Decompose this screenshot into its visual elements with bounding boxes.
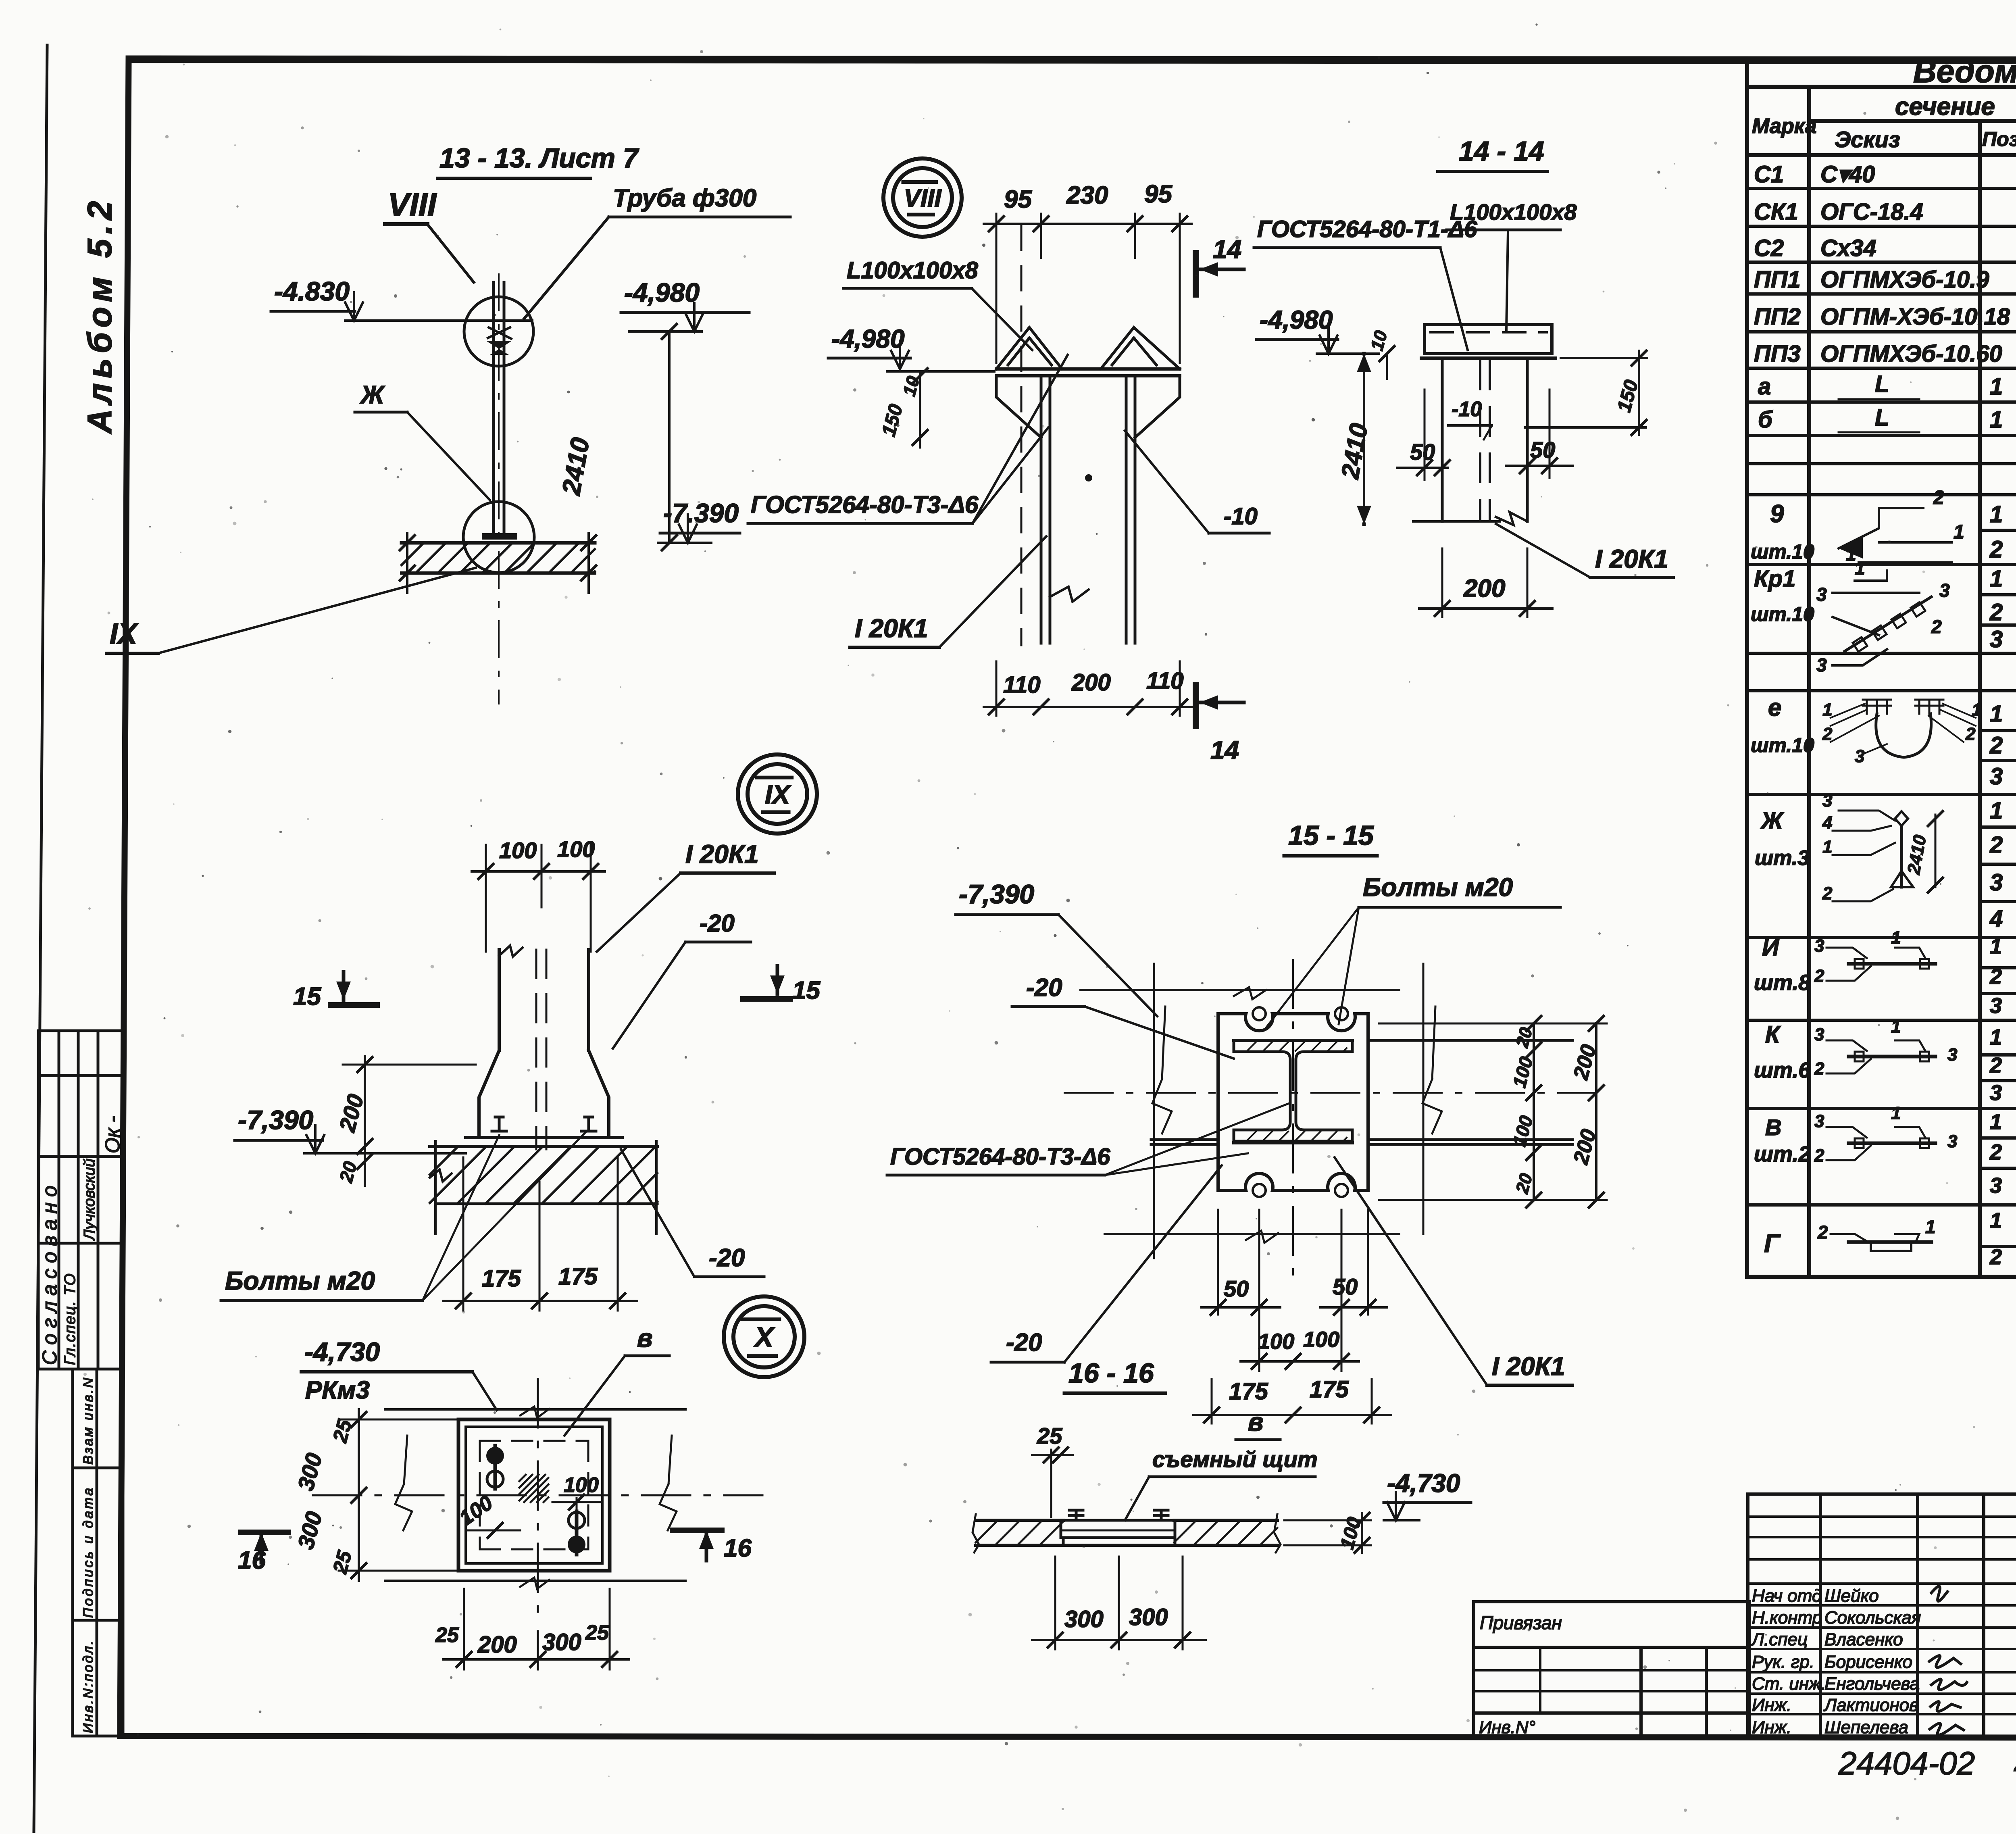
svg-text:3: 3 (1990, 763, 2003, 790)
svg-text:IX: IX (765, 779, 791, 809)
svg-text:В: В (1765, 1115, 1781, 1140)
svg-text:Инв.N:подл.: Инв.N:подл. (81, 1639, 96, 1733)
svg-text:Болты м20: Болты м20 (225, 1266, 375, 1295)
view 15-15 weld label GOST5264-80-T3-D6 (887, 1103, 1290, 1175)
table row C1 (1754, 161, 2016, 188)
left stamp table: inventory block (73, 1369, 123, 1736)
svg-text:ОГПМХЭб-10.9: ОГПМХЭб-10.9 (1820, 267, 1989, 293)
svg-text:в: в (637, 1323, 653, 1353)
svg-text:Подпись и дата: Подпись и дата (81, 1486, 96, 1618)
svg-text:2: 2 (1965, 724, 1976, 744)
view IX section mark 15 left (293, 972, 377, 1011)
view 13-13 pipe (494, 274, 504, 704)
svg-text:IX: IX (110, 618, 139, 650)
svg-text:100: 100 (1258, 1330, 1294, 1354)
svg-text:шт.8: шт.8 (1754, 971, 1810, 995)
view 15-15 right dims 20 100 100 20 200 200 (1379, 1016, 1607, 1207)
svg-text:16 - 16: 16 - 16 (1068, 1358, 1154, 1388)
view VIII weld label GOST5264-80-T3-D6 (748, 355, 1068, 523)
svg-text:-4,730: -4,730 (304, 1337, 380, 1367)
svg-text:100: 100 (564, 1473, 599, 1497)
view IX label I 20K1 (597, 840, 774, 952)
svg-text:2: 2 (1817, 1222, 1828, 1243)
svg-text:2: 2 (1814, 1146, 1824, 1165)
svg-text:200: 200 (477, 1632, 517, 1658)
view X bottom dims 25 200 300 25 (435, 1589, 629, 1669)
svg-text:2: 2 (1822, 724, 1833, 744)
privyazan block (1474, 1602, 1749, 1736)
view 15-15 bolts label (1264, 873, 1560, 1030)
svg-text:175: 175 (1310, 1376, 1349, 1403)
svg-text:14 - 14: 14 - 14 (1459, 136, 1544, 167)
svg-text:Сокольская: Сокольская (1824, 1608, 1921, 1628)
view 16-16 elevation -4,730 (1384, 1469, 1471, 1520)
view VIII dim 150 10 left (878, 369, 927, 448)
svg-text:Марка: Марка (1752, 115, 1817, 138)
svg-text:С1: С1 (1754, 161, 1784, 188)
table row PP3 (1754, 341, 2016, 367)
table group Zh (1755, 798, 2016, 934)
svg-text:-4,730: -4,730 (1387, 1469, 1460, 1498)
view 16-16 slab section (973, 1510, 1281, 1553)
svg-text:Сх34: Сх34 (1820, 235, 1876, 261)
view 13-13 bottom detail circle (463, 502, 534, 573)
svg-text:С2: С2 (1754, 235, 1784, 261)
svg-text:Поз: Поз (1982, 128, 2016, 150)
svg-text:-4,980: -4,980 (624, 277, 700, 307)
view 14-14 dims 50 50 (1397, 390, 1572, 480)
view 14-14 dim 150 (1525, 351, 1647, 435)
svg-text:4: 4 (1822, 813, 1832, 833)
view IX elevation -7,390 (235, 1105, 466, 1153)
table row PP2 (1754, 304, 2016, 330)
view IX ground slab (430, 1141, 657, 1234)
view 15-15 label -20 lower (991, 1165, 1222, 1362)
svg-text:шт.6: шт.6 (1754, 1058, 1811, 1082)
view IX column (466, 946, 622, 1149)
table group G sketch (1817, 1216, 1936, 1251)
view VIII top dimensions 95 230 95 (984, 180, 1191, 363)
view 16-16 dim 100 (1284, 1513, 1371, 1553)
svg-text:1: 1 (1891, 1017, 1901, 1036)
table group K sketch (1826, 1040, 1935, 1073)
view VIII section circle symbol (883, 158, 962, 237)
svg-text:Нач отд: Нач отд (1752, 1586, 1822, 1606)
svg-text:3: 3 (1990, 626, 2003, 652)
svg-text:Гл.спец. ТО: Гл.спец. ТО (62, 1273, 79, 1365)
svg-text:3: 3 (1816, 654, 1827, 675)
svg-text:1: 1 (1990, 934, 2002, 959)
svg-text:-20: -20 (709, 1244, 745, 1272)
svg-text:-7,390: -7,390 (959, 879, 1034, 909)
svg-text:200: 200 (1463, 575, 1505, 602)
svg-text:3: 3 (1855, 746, 1864, 766)
view IX label -20 bottom (621, 1149, 764, 1277)
svg-text:3: 3 (1990, 1173, 2002, 1198)
svg-text:3: 3 (1990, 994, 2002, 1018)
view X section circle symbol (724, 1296, 804, 1377)
svg-text:1: 1 (1990, 1110, 2002, 1134)
svg-text:ГОСТ5264-80-Т3-Δ6: ГОСТ5264-80-Т3-Δ6 (890, 1144, 1110, 1170)
svg-text:100: 100 (557, 836, 595, 862)
svg-text:Ст. инж.: Ст. инж. (1752, 1674, 1826, 1694)
svg-text:Инж.: Инж. (1752, 1717, 1791, 1737)
table group Kr1 sketch (1816, 558, 1950, 675)
svg-text:L100x100x8: L100x100x8 (847, 257, 978, 283)
svg-text:1: 1 (1972, 700, 1981, 720)
svg-text:ОГС-18.4: ОГС-18.4 (1820, 199, 1923, 225)
view 14-14 plate (1413, 325, 1556, 525)
svg-text:3: 3 (1947, 1045, 1957, 1065)
svg-text:3: 3 (1990, 1081, 2002, 1105)
svg-text:СК1: СК1 (1754, 199, 1798, 225)
table row a (1758, 371, 2016, 402)
view 16-16 label v and panel (1125, 1407, 1318, 1520)
table group K (1754, 1021, 2016, 1105)
svg-text:95: 95 (1004, 185, 1032, 213)
svg-text:С▾40: С▾40 (1820, 161, 1875, 188)
view 15-15 label -20 upper (1012, 974, 1234, 1059)
view X elevation -4,730 (301, 1337, 497, 1410)
view 15-15 bottom dims 50 50 100 100 175 175 (1193, 1210, 1391, 1423)
view X centerlines (313, 1379, 762, 1622)
svg-text:300: 300 (1129, 1604, 1168, 1630)
table group V sketch (1826, 1127, 1935, 1160)
view 14-14 weld label GOST5264-80-T1-D6 (1254, 216, 1477, 350)
svg-text:б: б (1758, 406, 1773, 433)
svg-text:Кр1: Кр1 (1754, 566, 1795, 592)
svg-text:-7,390: -7,390 (238, 1105, 313, 1135)
svg-text:1: 1 (1855, 558, 1865, 579)
svg-text:13 - 13. Лист 7: 13 - 13. Лист 7 (439, 143, 639, 173)
svg-text:шт.10: шт.10 (1751, 603, 1814, 625)
svg-text:I 20К1: I 20К1 (685, 840, 759, 869)
svg-text:Эскиз: Эскиз (1835, 127, 1900, 152)
view 15-15 label I 20K1 (1335, 1157, 1572, 1385)
view 13-13 top detail circle (464, 297, 533, 366)
svg-text:2: 2 (1989, 1053, 2002, 1077)
svg-text:2: 2 (1931, 616, 1942, 637)
view 15-15 elevation -7,390 (956, 879, 1157, 1016)
svg-text:Привязан: Привязан (1480, 1612, 1562, 1633)
svg-text:шт.2: шт.2 (1754, 1142, 1810, 1166)
view IX dims 200 20 (334, 1057, 476, 1186)
svg-text:1: 1 (1954, 521, 1964, 543)
view X left dims 25 300 300 25 (293, 1409, 460, 1581)
svg-text:4: 4 (1989, 906, 2003, 932)
view IX section circle symbol (738, 754, 817, 834)
svg-text:Ок -: Ок - (101, 1116, 124, 1153)
table row PP1 (1754, 267, 2016, 293)
svg-text:9: 9 (1770, 500, 1784, 528)
svg-text:в: в (1248, 1407, 1264, 1436)
svg-text:Лактионов: Лактионов (1823, 1695, 1918, 1715)
svg-text:24404-02: 24404-02 (1838, 1745, 1975, 1781)
view VIII label I 20K1 (850, 536, 1046, 647)
view VIII angle label L100x100x8 (843, 257, 1032, 350)
svg-text:2: 2 (1989, 965, 2002, 989)
view X bolt symbols (486, 1446, 585, 1555)
svg-text:2: 2 (1989, 1245, 2002, 1269)
svg-text:-7.390: -7.390 (663, 498, 739, 528)
svg-text:I 20К1: I 20К1 (855, 614, 928, 643)
svg-text:3: 3 (1990, 869, 2003, 896)
svg-text:100: 100 (1303, 1328, 1339, 1352)
svg-text:Труба ф300: Труба ф300 (613, 184, 756, 212)
view 13-13 zh label (355, 381, 490, 500)
view 13-13 pipe label (524, 184, 790, 319)
svg-text:3: 3 (1947, 1132, 1957, 1151)
view 14-14 label -10 (1448, 398, 1492, 440)
svg-text:2: 2 (1814, 966, 1824, 986)
svg-text:25: 25 (435, 1624, 459, 1647)
svg-text:2: 2 (1989, 599, 2003, 625)
svg-text:L: L (1875, 404, 1889, 431)
svg-text:К: К (1765, 1021, 1781, 1048)
svg-text:Л.спец: Л.спец (1751, 1630, 1808, 1649)
svg-text:2: 2 (1989, 732, 2003, 759)
svg-text:16: 16 (724, 1534, 752, 1562)
table row b (1758, 404, 2016, 436)
svg-text:сечение: сечение (1895, 93, 1995, 121)
table group 9 (1751, 500, 2016, 565)
svg-text:Шепелева: Шепелева (1824, 1717, 1908, 1737)
svg-text:а: а (1758, 373, 1771, 400)
view X square plan (458, 1419, 610, 1571)
view 14-14 label I 20K1 (1496, 524, 1673, 577)
svg-text:I 20К1: I 20К1 (1595, 544, 1668, 573)
svg-text:1: 1 (1990, 501, 2003, 527)
view 15-15 floor plate lines (1151, 1007, 1572, 1144)
svg-text:1: 1 (1990, 566, 2003, 592)
view VIII bottom dims 110 200 110 (984, 661, 1191, 716)
footer number (1838, 1742, 2016, 1781)
view 13-13 IX label (106, 568, 476, 653)
svg-text:шт.10: шт.10 (1751, 734, 1814, 757)
table group Kr1 (1751, 566, 2016, 655)
view IX label -20 top (613, 910, 751, 1048)
view X crosshatch patch (519, 1475, 548, 1502)
svg-text:1: 1 (1990, 1025, 2002, 1049)
svg-text:-10: -10 (1452, 398, 1482, 421)
svg-text:Инв.N°: Инв.N° (1479, 1717, 1535, 1737)
svg-text:ПП2: ПП2 (1754, 304, 1801, 330)
title block signature rows (1751, 1586, 1967, 1737)
svg-text:шт.10: шт.10 (1751, 540, 1814, 563)
table group V (1754, 1106, 2016, 1198)
svg-text:1: 1 (1990, 701, 2003, 727)
view X break lines (385, 1407, 685, 1589)
view 13-13 label VIII (385, 187, 474, 282)
svg-text:ПП3: ПП3 (1754, 341, 1801, 367)
svg-text:Енгольчева: Енгольчева (1824, 1674, 1920, 1694)
svg-text:Болты м20: Болты м20 (1363, 873, 1513, 902)
svg-text:И: И (1762, 935, 1779, 961)
svg-text:50: 50 (1333, 1274, 1358, 1299)
table row C2 (1754, 235, 2016, 261)
svg-text:27: 27 (2014, 1742, 2016, 1778)
svg-text:2: 2 (1933, 487, 1944, 509)
svg-text:2: 2 (1989, 832, 2003, 858)
svg-text:3: 3 (1822, 791, 1832, 811)
svg-text:Рук. гр.: Рук. гр. (1752, 1652, 1814, 1672)
svg-text:Согласовано: Согласовано (38, 1180, 61, 1365)
view X section mark 16 left (238, 1532, 288, 1574)
view 15-15 title (1284, 820, 1377, 856)
vedomost table title (1913, 52, 2016, 89)
svg-text:3: 3 (1816, 584, 1827, 605)
sheet outer edge left (34, 45, 47, 1832)
table group I sketch (1826, 948, 1935, 981)
svg-text:2: 2 (1989, 1140, 2002, 1164)
svg-text:50: 50 (1224, 1276, 1249, 1301)
table row CK1 (1754, 199, 2016, 225)
svg-text:-20: -20 (1026, 974, 1062, 1002)
view 14-14 dim 10 small (1367, 328, 1394, 379)
view 16-16 dim 25 (1032, 1423, 1073, 1517)
view VIII section mark 14 top (1196, 235, 1244, 294)
left stamp table: soglasovano block (38, 1031, 123, 1369)
view 15-15 base plate with bolt notches (1218, 1007, 1368, 1197)
svg-text:Н.контр: Н.контр (1752, 1608, 1822, 1628)
svg-text:15: 15 (792, 977, 821, 1005)
svg-text:300: 300 (1064, 1606, 1104, 1632)
svg-text:Шейко: Шейко (1824, 1586, 1879, 1606)
view 13-13 elevation -4.830 (271, 276, 532, 321)
svg-text:ОГПМ-ХЭб-10.18: ОГПМ-ХЭб-10.18 (1820, 304, 2010, 330)
view X label v (564, 1323, 669, 1436)
view IX bolts label (221, 1131, 587, 1300)
album label (81, 196, 119, 434)
svg-text:Власенко: Власенко (1824, 1630, 1903, 1649)
svg-text:15 - 15: 15 - 15 (1288, 820, 1374, 851)
svg-text:Альбом 5.2: Альбом 5.2 (81, 196, 119, 434)
svg-text:1: 1 (1891, 928, 1901, 948)
svg-text:VIII: VIII (388, 187, 437, 223)
svg-text:230: 230 (1066, 181, 1108, 209)
svg-text:Ж: Ж (1760, 808, 1784, 834)
svg-text:25: 25 (1037, 1423, 1062, 1448)
table group e (1751, 694, 2016, 790)
view 15-15 centerlines (1064, 960, 1597, 1282)
svg-text:Борисенко: Борисенко (1824, 1652, 1912, 1672)
view 14-14 label L100x100x8 (1447, 199, 1577, 331)
svg-text:-4.830: -4.830 (274, 276, 350, 306)
svg-text:-20: -20 (1006, 1329, 1042, 1357)
view VIII elevation -4,980 (828, 324, 994, 371)
svg-text:-20: -20 (700, 910, 735, 937)
svg-text:110: 110 (1003, 672, 1040, 698)
view 13-13 ground slab (400, 533, 596, 593)
svg-text:3: 3 (1939, 580, 1950, 601)
svg-text:1: 1 (1822, 700, 1832, 720)
svg-text:14: 14 (1210, 736, 1239, 765)
svg-text:шт.3: шт.3 (1755, 846, 1809, 870)
view 13-13 title (437, 143, 639, 178)
svg-text:Взам инв.N: Взам инв.N (81, 1376, 96, 1465)
title block grid (1748, 1494, 2016, 1738)
view 14-14 dim 200 (1419, 548, 1552, 617)
view IX section mark 15 right (743, 966, 821, 1005)
svg-text:съемный щит: съемный щит (1152, 1446, 1318, 1472)
svg-text:е: е (1768, 694, 1781, 721)
svg-text:3: 3 (1814, 936, 1824, 956)
svg-text:15: 15 (293, 983, 321, 1011)
svg-text:1: 1 (1990, 406, 2003, 433)
svg-text:ОГПМХЭб-10.60: ОГПМХЭб-10.60 (1820, 341, 2002, 367)
table group I (1754, 934, 2016, 1018)
svg-text:200: 200 (1071, 669, 1111, 696)
svg-text:ГОСТ5264-80-Т1-Δ6: ГОСТ5264-80-Т1-Δ6 (1257, 216, 1477, 242)
view 13-13 dim 2410 (556, 324, 677, 550)
view 13-13 elevation -4.980 (621, 277, 749, 331)
svg-text:X: X (753, 1321, 775, 1353)
svg-text:25: 25 (585, 1621, 609, 1644)
svg-text:95: 95 (1144, 180, 1173, 208)
vedomost header labels (1752, 92, 2016, 157)
view X dim 100 near bolts (455, 1473, 601, 1538)
svg-text:VIII: VIII (904, 184, 942, 212)
svg-text:ГОСТ5264-80-Т3-Δ6: ГОСТ5264-80-Т3-Δ6 (751, 491, 979, 518)
view X label RKm3 (305, 1376, 370, 1404)
table group e sketch (1822, 700, 1981, 766)
svg-text:3: 3 (1814, 1111, 1824, 1131)
view 16-16 title (1064, 1358, 1165, 1393)
view 16-16 bottom dims 300 300 (1032, 1557, 1206, 1649)
view 15-15 I-beam section (1234, 1040, 1352, 1143)
view IX dims 175 175 (444, 1157, 637, 1311)
svg-text:L: L (1875, 371, 1889, 397)
svg-text:2: 2 (1989, 536, 2003, 563)
svg-text:Лучковский: Лучковский (81, 1159, 98, 1241)
view X section mark 16 right (673, 1530, 752, 1562)
svg-text:-10: -10 (1224, 503, 1258, 529)
svg-text:1: 1 (1990, 373, 2003, 400)
svg-text:РКм3: РКм3 (305, 1376, 370, 1404)
svg-text:1: 1 (1822, 837, 1832, 857)
table group 9 sketch (1839, 487, 1964, 565)
svg-text:3: 3 (1814, 1025, 1824, 1044)
svg-text:Ж: Ж (360, 381, 385, 409)
view 14-14 dim 2410 (1336, 354, 1373, 524)
table group Zh sketch (1822, 791, 1943, 903)
svg-text:-4,980: -4,980 (831, 324, 904, 353)
view 14-14 elevation -4,980 (1256, 305, 1379, 354)
svg-text:175: 175 (482, 1265, 521, 1292)
svg-text:I 20К1: I 20К1 (1492, 1352, 1565, 1381)
svg-text:1: 1 (1990, 798, 2003, 824)
view VIII label -10 (1125, 431, 1269, 533)
view VIII section mark 14 bottom (1196, 686, 1244, 765)
svg-text:175: 175 (1229, 1378, 1268, 1405)
view 13-13 elevation -7.390 (658, 498, 740, 543)
svg-text:2: 2 (1814, 1059, 1824, 1079)
svg-text:1: 1 (1891, 1103, 1901, 1123)
svg-text:100: 100 (499, 838, 537, 863)
svg-text:175: 175 (558, 1263, 598, 1290)
svg-text:300: 300 (542, 1629, 581, 1655)
svg-text:110: 110 (1146, 668, 1183, 694)
table group G (1764, 1205, 2016, 1272)
svg-text:2: 2 (1822, 884, 1833, 903)
view VIII column detail (996, 226, 1180, 645)
view 14-14 title (1438, 136, 1547, 171)
svg-text:ПП1: ПП1 (1754, 267, 1801, 293)
svg-text:Инж.: Инж. (1752, 1695, 1791, 1715)
svg-text:1: 1 (1990, 1209, 2002, 1233)
view 15-15 frame extension lines (1081, 964, 1423, 1258)
svg-text:Г: Г (1764, 1229, 1781, 1258)
